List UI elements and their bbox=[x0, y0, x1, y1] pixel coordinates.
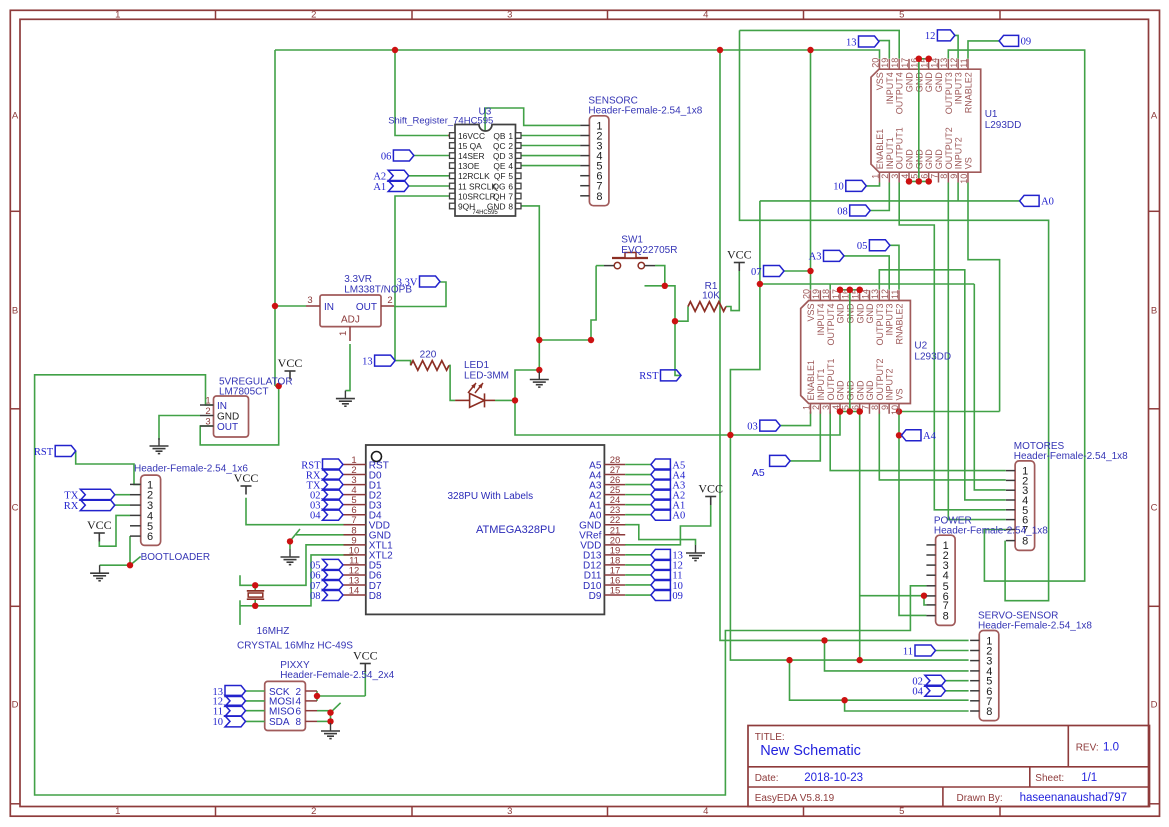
svg-text:14: 14 bbox=[349, 586, 360, 597]
svg-text:haseenanaushad797: haseenanaushad797 bbox=[1020, 792, 1127, 804]
svg-text:SDA: SDA bbox=[269, 717, 290, 728]
svg-text:INPUT1: INPUT1 bbox=[816, 368, 826, 400]
svg-text:8: 8 bbox=[870, 405, 880, 410]
svg-text:11: 11 bbox=[903, 646, 913, 657]
svg-text:5: 5 bbox=[899, 10, 904, 21]
svg-text:8: 8 bbox=[939, 174, 949, 179]
svg-text:BOOTLOADER: BOOTLOADER bbox=[141, 552, 210, 563]
svg-text:13: 13 bbox=[362, 356, 373, 367]
svg-text:13: 13 bbox=[846, 37, 857, 48]
svg-text:TX: TX bbox=[64, 491, 78, 502]
svg-text:ADJ: ADJ bbox=[341, 315, 360, 326]
svg-text:07: 07 bbox=[751, 267, 762, 278]
svg-text:2018-10-23: 2018-10-23 bbox=[804, 772, 863, 784]
svg-text:1: 1 bbox=[338, 331, 349, 336]
svg-text:10: 10 bbox=[833, 182, 844, 193]
svg-text:D: D bbox=[12, 700, 19, 711]
svg-text:13: 13 bbox=[939, 58, 949, 68]
svg-text:2: 2 bbox=[311, 806, 316, 817]
svg-text:04: 04 bbox=[310, 511, 321, 522]
svg-text:INPUT4: INPUT4 bbox=[816, 304, 826, 336]
svg-text:4: 4 bbox=[508, 161, 513, 171]
svg-text:LED-3MM: LED-3MM bbox=[464, 371, 509, 382]
svg-text:Header-Female-2.54_1x8: Header-Female-2.54_1x8 bbox=[934, 526, 1048, 537]
svg-text:U2: U2 bbox=[914, 341, 927, 352]
svg-text:16MHZ: 16MHZ bbox=[257, 626, 290, 637]
svg-text:19: 19 bbox=[811, 289, 821, 299]
svg-text:5: 5 bbox=[508, 171, 513, 181]
svg-text:328PU With Labels: 328PU With Labels bbox=[448, 491, 534, 502]
svg-text:VSS: VSS bbox=[806, 304, 816, 322]
svg-text:3: 3 bbox=[507, 10, 512, 21]
svg-text:GND: GND bbox=[934, 149, 944, 170]
svg-text:OUTPUT4: OUTPUT4 bbox=[895, 72, 905, 114]
svg-text:OUTPUT3: OUTPUT3 bbox=[875, 304, 885, 346]
svg-text:EVQ22705R: EVQ22705R bbox=[621, 245, 677, 256]
svg-text:11: 11 bbox=[890, 290, 900, 299]
svg-text:VCC: VCC bbox=[87, 518, 112, 532]
svg-text:Header-Female-2.54_1x8: Header-Female-2.54_1x8 bbox=[588, 106, 702, 117]
svg-text:LED1: LED1 bbox=[464, 360, 489, 371]
svg-text:VCC: VCC bbox=[698, 482, 723, 496]
svg-text:L293DD: L293DD bbox=[914, 352, 951, 363]
svg-text:VS: VS bbox=[895, 388, 905, 400]
svg-text:IN: IN bbox=[217, 401, 227, 412]
svg-text:6: 6 bbox=[508, 181, 513, 191]
svg-text:18: 18 bbox=[821, 289, 831, 299]
svg-text:INPUT3: INPUT3 bbox=[885, 304, 895, 336]
svg-text:Header-Female-2.54_1x8: Header-Female-2.54_1x8 bbox=[978, 621, 1092, 632]
svg-text:INPUT3: INPUT3 bbox=[954, 72, 964, 104]
svg-text:D9: D9 bbox=[589, 591, 602, 602]
svg-text:1: 1 bbox=[508, 131, 513, 141]
svg-text:QC: QC bbox=[493, 141, 506, 151]
svg-text:1: 1 bbox=[801, 405, 811, 410]
svg-text:9: 9 bbox=[880, 405, 890, 410]
svg-text:ENABLE1: ENABLE1 bbox=[875, 129, 885, 170]
svg-text:RX: RX bbox=[64, 501, 79, 512]
svg-text:A4: A4 bbox=[923, 431, 937, 442]
svg-text:7: 7 bbox=[929, 174, 939, 179]
svg-text:Sheet:: Sheet: bbox=[1035, 773, 1064, 784]
svg-text:1: 1 bbox=[870, 174, 880, 179]
svg-text:C: C bbox=[12, 503, 19, 514]
svg-text:A0: A0 bbox=[672, 511, 685, 522]
svg-text:OUTPUT2: OUTPUT2 bbox=[875, 358, 885, 400]
svg-text:QB: QB bbox=[493, 131, 506, 141]
svg-text:13: 13 bbox=[870, 289, 880, 299]
svg-text:A3: A3 bbox=[809, 252, 822, 263]
svg-text:1/1: 1/1 bbox=[1081, 772, 1097, 784]
svg-text:15 QA: 15 QA bbox=[458, 141, 482, 151]
svg-text:2: 2 bbox=[205, 406, 210, 417]
svg-text:A5: A5 bbox=[752, 467, 765, 479]
svg-text:QH: QH bbox=[493, 191, 506, 201]
svg-text:RNABLE2: RNABLE2 bbox=[964, 72, 974, 113]
svg-text:20: 20 bbox=[870, 58, 880, 68]
svg-text:OUT: OUT bbox=[356, 302, 377, 313]
svg-text:19: 19 bbox=[880, 58, 890, 68]
svg-text:3: 3 bbox=[890, 174, 900, 179]
svg-text:IN: IN bbox=[324, 302, 334, 313]
svg-text:6: 6 bbox=[295, 707, 301, 718]
svg-text:8: 8 bbox=[986, 706, 992, 718]
svg-text:INPUT2: INPUT2 bbox=[885, 368, 895, 400]
svg-text:13OE: 13OE bbox=[458, 161, 480, 171]
svg-text:1.0: 1.0 bbox=[1103, 742, 1119, 754]
svg-text:3: 3 bbox=[821, 405, 831, 410]
svg-text:4: 4 bbox=[703, 10, 708, 21]
svg-text:Drawn By:: Drawn By: bbox=[957, 793, 1003, 804]
svg-text:OUTPUT2: OUTPUT2 bbox=[944, 127, 954, 169]
svg-text:04: 04 bbox=[912, 687, 923, 698]
svg-text:B: B bbox=[12, 306, 18, 317]
svg-text:QG: QG bbox=[492, 181, 505, 191]
svg-text:06: 06 bbox=[381, 151, 392, 162]
svg-text:A1: A1 bbox=[373, 182, 386, 193]
svg-text:OUTPUT1: OUTPUT1 bbox=[895, 127, 905, 169]
svg-text:14SER: 14SER bbox=[458, 151, 485, 161]
svg-text:INPUT2: INPUT2 bbox=[954, 137, 964, 169]
svg-text:TITLE:: TITLE: bbox=[755, 732, 785, 743]
svg-text:GND: GND bbox=[855, 303, 865, 324]
svg-text:Header-Female-2.54_2x4: Header-Female-2.54_2x4 bbox=[280, 670, 394, 681]
svg-text:6: 6 bbox=[147, 531, 153, 543]
svg-text:VCC: VCC bbox=[727, 248, 752, 262]
svg-text:09: 09 bbox=[672, 591, 683, 602]
svg-text:11: 11 bbox=[959, 58, 969, 67]
svg-text:GND: GND bbox=[924, 149, 934, 170]
svg-text:Header-Female-2.54_1x8: Header-Female-2.54_1x8 bbox=[1014, 451, 1128, 462]
svg-text:Shift_Register_74HC595: Shift_Register_74HC595 bbox=[388, 116, 493, 127]
svg-text:A: A bbox=[1151, 111, 1158, 122]
svg-text:3: 3 bbox=[507, 806, 512, 817]
svg-text:05: 05 bbox=[857, 241, 868, 252]
svg-text:QE: QE bbox=[493, 161, 506, 171]
svg-text:1: 1 bbox=[115, 10, 120, 21]
svg-text:10: 10 bbox=[890, 405, 900, 415]
svg-text:GND: GND bbox=[905, 149, 915, 170]
svg-text:8: 8 bbox=[596, 191, 602, 203]
svg-text:GND: GND bbox=[836, 380, 846, 401]
svg-text:4: 4 bbox=[703, 806, 708, 817]
svg-text:11: 11 bbox=[213, 707, 223, 718]
svg-text:12: 12 bbox=[949, 58, 959, 68]
svg-text:11 SRCLK: 11 SRCLK bbox=[458, 181, 497, 191]
svg-text:RST: RST bbox=[34, 447, 54, 458]
svg-text:15: 15 bbox=[610, 586, 621, 597]
svg-text:LM7805CT: LM7805CT bbox=[219, 387, 268, 398]
svg-text:REV:: REV: bbox=[1076, 743, 1099, 754]
svg-text:3: 3 bbox=[205, 417, 210, 428]
svg-text:17: 17 bbox=[900, 58, 910, 68]
svg-text:2: 2 bbox=[811, 405, 821, 410]
svg-text:8: 8 bbox=[508, 201, 513, 211]
svg-text:RNABLE2: RNABLE2 bbox=[895, 304, 905, 345]
svg-text:2: 2 bbox=[311, 10, 316, 21]
svg-text:8: 8 bbox=[295, 717, 301, 728]
svg-text:GND: GND bbox=[836, 303, 846, 324]
svg-text:GND: GND bbox=[865, 380, 875, 401]
svg-text:OUT: OUT bbox=[217, 422, 238, 433]
svg-text:10: 10 bbox=[213, 717, 224, 728]
svg-text:A0: A0 bbox=[1041, 197, 1054, 208]
svg-text:5: 5 bbox=[899, 806, 904, 817]
svg-text:INPUT4: INPUT4 bbox=[885, 72, 895, 104]
svg-text:MISO: MISO bbox=[269, 707, 295, 718]
svg-text:QD: QD bbox=[493, 151, 506, 161]
svg-text:12: 12 bbox=[880, 289, 890, 299]
svg-text:16VCC: 16VCC bbox=[458, 131, 485, 141]
svg-text:GND: GND bbox=[934, 72, 944, 93]
svg-text:12: 12 bbox=[925, 31, 936, 42]
svg-text:EasyEDA V5.8.19: EasyEDA V5.8.19 bbox=[755, 793, 835, 804]
svg-text:2: 2 bbox=[508, 141, 513, 151]
svg-text:SW1: SW1 bbox=[621, 235, 643, 246]
svg-text:6: 6 bbox=[919, 174, 929, 179]
svg-text:VS: VS bbox=[964, 157, 974, 169]
svg-text:GND: GND bbox=[865, 303, 875, 324]
svg-text:U1: U1 bbox=[985, 109, 998, 120]
svg-text:Date:: Date: bbox=[755, 773, 779, 784]
svg-text:18: 18 bbox=[890, 58, 900, 68]
svg-text:GND: GND bbox=[217, 411, 239, 422]
svg-text:3: 3 bbox=[307, 295, 312, 306]
svg-text:8: 8 bbox=[943, 611, 949, 623]
svg-text:08: 08 bbox=[837, 206, 848, 217]
svg-text:1: 1 bbox=[115, 806, 120, 817]
svg-text:GND: GND bbox=[905, 72, 915, 93]
svg-text:220: 220 bbox=[420, 350, 437, 361]
svg-text:ENABLE1: ENABLE1 bbox=[806, 360, 816, 401]
svg-text:08: 08 bbox=[310, 591, 321, 602]
svg-text:VSS: VSS bbox=[875, 72, 885, 90]
svg-text:1: 1 bbox=[205, 396, 210, 407]
svg-text:VCC: VCC bbox=[278, 356, 303, 370]
svg-text:QF: QF bbox=[494, 171, 506, 181]
svg-text:2: 2 bbox=[387, 295, 392, 306]
svg-text:74HC595: 74HC595 bbox=[472, 210, 498, 216]
svg-text:OUTPUT1: OUTPUT1 bbox=[826, 358, 836, 400]
svg-text:INPUT1: INPUT1 bbox=[885, 137, 895, 169]
svg-text:4: 4 bbox=[900, 174, 910, 179]
svg-text:3: 3 bbox=[508, 151, 513, 161]
svg-text:RST: RST bbox=[639, 371, 659, 382]
svg-text:8: 8 bbox=[1022, 536, 1028, 548]
svg-text:B: B bbox=[1151, 306, 1157, 317]
svg-text:VCC: VCC bbox=[353, 649, 378, 663]
svg-text:2: 2 bbox=[880, 174, 890, 179]
svg-text:09: 09 bbox=[1021, 37, 1032, 48]
svg-text:7: 7 bbox=[508, 191, 513, 201]
svg-text:10K: 10K bbox=[702, 291, 720, 302]
svg-text:D8: D8 bbox=[369, 591, 382, 602]
svg-text:3.3VR: 3.3VR bbox=[344, 274, 372, 285]
svg-text:OUTPUT3: OUTPUT3 bbox=[944, 72, 954, 114]
svg-text:CRYSTAL 16Mhz HC-49S: CRYSTAL 16Mhz HC-49S bbox=[237, 641, 353, 652]
svg-text:A: A bbox=[12, 111, 19, 122]
svg-text:D: D bbox=[1151, 700, 1158, 711]
svg-text:VCC: VCC bbox=[234, 471, 259, 485]
svg-text:03: 03 bbox=[747, 421, 758, 432]
svg-text:12RCLK: 12RCLK bbox=[458, 171, 490, 181]
svg-text:L293DD: L293DD bbox=[985, 120, 1022, 131]
svg-text:GND: GND bbox=[924, 72, 934, 93]
svg-text:20: 20 bbox=[801, 289, 811, 299]
svg-text:C: C bbox=[1151, 503, 1158, 514]
svg-text:10SRCLR: 10SRCLR bbox=[458, 191, 496, 201]
svg-text:New Schematic: New Schematic bbox=[760, 743, 861, 759]
svg-text:OUTPUT4: OUTPUT4 bbox=[826, 304, 836, 346]
svg-text:ATMEGA328PU: ATMEGA328PU bbox=[476, 524, 555, 536]
svg-text:Header-Female-2.54_1x6: Header-Female-2.54_1x6 bbox=[134, 464, 248, 475]
svg-text:3.3V: 3.3V bbox=[397, 277, 418, 288]
svg-text:9: 9 bbox=[949, 174, 959, 179]
svg-text:10: 10 bbox=[959, 174, 969, 184]
svg-text:GND: GND bbox=[855, 380, 865, 401]
